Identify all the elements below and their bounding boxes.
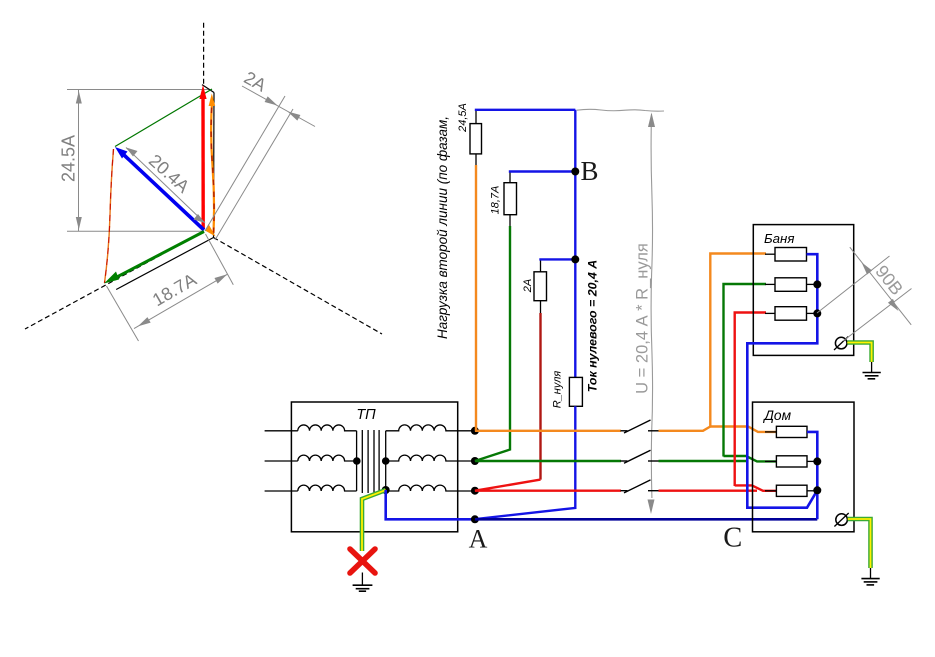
Dom earth electrode circle [836,514,848,526]
node dot B [571,168,579,176]
phasor diagram [25,23,382,341]
node dot L1 [471,427,479,435]
svg-text:2А: 2А [522,279,534,293]
Banya PE wire [847,343,871,363]
input wire L1 [265,430,298,432]
Banya blue neutral [747,254,817,508]
blue bus top wire [475,111,477,124]
Dom resistor 1 [765,431,776,433]
dimension 2A extension lines [205,96,285,231]
broken earth red X [350,549,375,573]
phasor green arrow (phase C) [113,232,204,280]
phasor orange arrowhead at origin [205,224,216,237]
phasor blue arrow (20.4A resultant) [124,155,204,230]
svg-text:18.7A: 18.7A [149,269,200,310]
svg-text:B: B [580,156,598,186]
Dom ground symbol [861,579,879,585]
svg-text:U = 20,4 А * R_нуля: U = 20,4 А * R_нуля [634,243,652,394]
dashed axis down-left [25,232,204,330]
Dom resistor 2 [765,460,776,462]
PE wire yellow-green from star point [362,490,386,551]
90V dimension line [850,247,911,325]
svg-text:18,7А: 18,7А [490,186,502,215]
Banya ground lead [871,362,873,373]
resistor 24,5A [470,124,482,154]
Dom neutral dot R3 [813,486,821,494]
node dot L3 [471,487,479,495]
Banya neutral dot R3 [813,309,821,317]
dashed axis down-right [214,238,383,335]
phasor black frame corner top [202,85,214,93]
Dom resistor 3 [765,490,776,492]
phase line L3 red with switch [475,313,777,493]
wire to resistor 2A [540,260,542,272]
svg-text:20.4A: 20.4A [145,150,193,196]
dimension 18.7A line with arrows [134,274,227,328]
neutral main line A to C [475,518,817,521]
green continues to Dom R2 [724,456,777,461]
svg-text:ТП: ТП [356,407,376,423]
switch L3 [621,490,628,492]
blue wire below R_nulya to neutral [478,406,575,519]
orange branch up to Banya [710,254,766,428]
phasor red arrow (phase B) [201,96,205,229]
svg-text:Дом: Дом [762,408,791,423]
Dom blue neutral [807,432,817,519]
dimension 24.5A extension lines [67,89,212,91]
Dom house [753,402,880,585]
transformer core lines [361,430,363,493]
svg-text:A: A [469,525,488,554]
orange continues to Dom R1 [710,427,776,432]
node dot N (A) [471,515,479,523]
green branch up to Banya [724,284,767,457]
phase line L1 orange with switch [475,254,777,434]
orange wire from resistor to node L1 [475,154,477,166]
resistor R_nulya [569,377,582,406]
Banya neutral dot R2 [813,280,821,288]
phase line L2 green with switch [475,284,777,463]
Banya resistor 1 [765,253,775,255]
90V extension line from earth [843,289,912,342]
phasor thin green line blue-tip to red-tip [115,89,212,147]
dimension 2A line with arrows [242,86,315,127]
Banya box [753,225,853,356]
primary star point dot [353,457,361,465]
U dimension arrows [648,113,655,128]
svg-text:R_нуля: R_нуля [552,371,564,409]
primary coil 1 [298,425,357,431]
resistor 2A [534,272,547,301]
transformer TP [265,402,475,532]
phasor black frame line parallel to green [116,238,213,290]
dimension 24.5A line with arrows [78,90,80,232]
svg-text:Ток нулевого = 20,4 А: Ток нулевого = 20,4 А [586,260,600,392]
dimension 20.4A line with arrows [126,148,205,224]
node dot L2 [471,457,479,465]
secondary coil 2 [386,455,475,461]
ground lead TP [361,573,363,586]
svg-text:90В: 90В [871,261,907,299]
primary coil 2 [298,455,357,461]
secondary neutral dot row3 [382,486,390,494]
Banya resistor 2 [765,283,775,285]
90V dimension [817,247,912,341]
svg-text:C: C [723,523,742,554]
Banya ground symbol [863,373,881,379]
dark red wire from resistor to node L3 [540,301,542,314]
dashed axis up [203,23,205,84]
switch L2 [621,460,628,462]
dimension 18.7A extension lines [206,234,234,285]
svg-text:Баня: Баня [764,231,794,246]
Dom PE wire [848,519,871,568]
primary coil 3 [298,485,357,491]
input wire L2 [265,460,298,462]
green wire from resistor to node L2 [509,215,511,227]
Dom neutral dot R2 [813,457,821,465]
90V extension line from node [817,256,890,313]
phasor thin red wavy line [105,149,114,283]
switch L1 [621,430,628,432]
Dom ground lead [870,568,872,579]
phasor orange wavy arrow [211,102,214,233]
U dimension squiggly vertical line [651,114,652,498]
red continues to Dom R3 [735,485,777,490]
input wire L3 [265,490,298,492]
wire B to resistor 18,7A [509,172,511,183]
red branch up to Banya [735,313,766,487]
blue bus vertical [574,110,576,378]
svg-text:24.5A: 24.5A [58,135,78,182]
Dom box [753,402,855,532]
neutral blue wire from star point to A [386,490,475,519]
node dot mid [571,255,579,263]
Banya resistor 3 [765,312,775,314]
Banya earth electrode circle [835,337,847,349]
Banya house [747,225,881,508]
secondary coil 3 [386,485,475,491]
transformer box [291,402,457,532]
svg-text:Нагрузка второй линии (по фаза: Нагрузка второй линии (по фазам, [435,116,450,339]
svg-text:24,5А: 24,5А [457,103,469,133]
secondary common vertical [385,431,387,490]
ground symbol TP [353,585,373,591]
primary common vertical [356,431,358,491]
resistor 18,7A [504,183,517,215]
phasor black frame line right [213,93,216,238]
secondary coil 1 [386,425,475,431]
secondary node dot row2 [382,457,390,465]
load column [457,103,599,519]
svg-text:2A: 2A [241,67,270,95]
U dimension squiggly extension [577,109,664,111]
